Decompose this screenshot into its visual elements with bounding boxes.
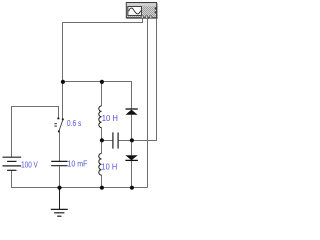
- wire scope terminal B straight down to bottom-right corner: [147, 18, 149, 187]
- wire switch to capacitor C1: [59, 132, 61, 161]
- node bottom-middle junction dot: [100, 186, 104, 190]
- oscilloscope XSC1 icon: [126, 3, 158, 19]
- diode D2: [125, 155, 137, 160]
- capacitor C2: [113, 132, 118, 148]
- node B junction dot: [100, 138, 104, 142]
- wire middle branch node B to capacitor C2: [102, 140, 113, 142]
- inductor L1: [99, 106, 102, 128]
- wire inductor L2 bottom to bottom bus: [101, 175, 103, 187]
- wire capacitor C2 to diode node: [119, 140, 132, 142]
- switch S1 time-delay: [54, 117, 64, 132]
- svg-text:10 H: 10 H: [102, 114, 118, 123]
- node diode-mid junction dot: [130, 138, 134, 142]
- capacitor C1: [51, 161, 67, 165]
- svg-text:0.6 s: 0.6 s: [67, 119, 82, 128]
- node bottom-right junction dot: [130, 186, 134, 190]
- wire top bus from node A to diode column: [63, 82, 132, 110]
- wire capacitor C1 to bottom bus: [59, 166, 61, 187]
- node A junction dot: [61, 80, 65, 84]
- inductor L2: [99, 154, 102, 176]
- svg-text:100 V: 100 V: [21, 160, 38, 169]
- wire scope terminal A down-left-down to node A: [63, 18, 143, 118]
- wire diode D1 to diode node: [131, 115, 133, 156]
- battery V1: [3, 157, 22, 170]
- node top-middle junction dot: [100, 80, 104, 84]
- wire battery top: [12, 107, 59, 158]
- svg-text:10 H: 10 H: [102, 163, 118, 172]
- wire scope right terminal C down then left to diode node: [132, 19, 157, 141]
- diode D1: [126, 109, 138, 115]
- node ground junction dot: [57, 186, 61, 190]
- svg-text:10 mF: 10 mF: [68, 159, 88, 168]
- wire battery bottom: [12, 170, 148, 187]
- ground: [51, 188, 68, 217]
- wire inductor L1 bottom to node B: [101, 128, 103, 154]
- wire diode D2 to bottom bus: [131, 161, 133, 188]
- wire inductor column top: [101, 82, 103, 107]
